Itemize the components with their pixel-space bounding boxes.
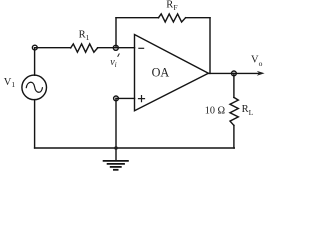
wire feedback right riser <box>209 18 211 74</box>
wire V1 bottom lead <box>34 100 36 148</box>
node noninverting input circle <box>114 96 119 101</box>
wire op-amp output <box>208 72 258 74</box>
junction dot ground <box>114 146 118 150</box>
resistor RL zigzag <box>230 97 238 125</box>
voltage source V1 circle <box>22 75 47 100</box>
wire top feedback left segment <box>116 17 159 19</box>
op-amp U1 triangle <box>135 35 209 111</box>
wire noninverting input <box>116 97 135 99</box>
prime mark <box>118 54 120 57</box>
wire noninverting node to ground rail <box>115 98 117 148</box>
node input terminal circle <box>32 45 37 50</box>
wire top feedback right segment <box>186 17 210 19</box>
op-amp plus sign <box>138 95 145 102</box>
wire feedback left riser <box>115 18 117 48</box>
node output circle <box>232 71 237 76</box>
resistor RF zigzag <box>159 14 186 22</box>
svg-text:OA: OA <box>152 66 170 80</box>
wire output node to RL <box>233 73 235 97</box>
voltage source V1 sine wave <box>26 82 42 92</box>
wire input node to R1 <box>35 47 71 49</box>
ground <box>103 161 129 170</box>
output arrowhead <box>257 71 265 76</box>
node vi inverting input circle <box>113 45 118 50</box>
wire R1 to inverting node <box>98 47 135 49</box>
op-amp minus sign <box>138 47 144 49</box>
resistor R1 zigzag <box>71 44 98 52</box>
svg-text:10 Ω: 10 Ω <box>205 105 226 116</box>
wire RL to bottom rail <box>233 125 235 148</box>
wire ground stem <box>115 148 117 161</box>
wire bottom rail <box>35 147 235 149</box>
wire V1 top lead <box>34 48 36 76</box>
